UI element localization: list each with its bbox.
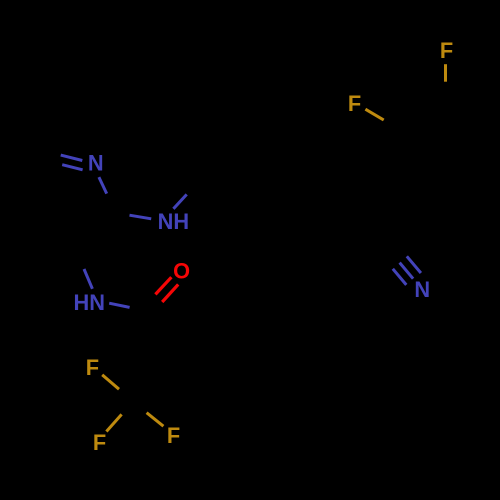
wire: F3 to CF3 carbon half-bond (147, 413, 164, 427)
pyridine ring: C=N double bond, lower line (62, 165, 82, 170)
wire: F1 to CF3 carbon half-bond (102, 375, 119, 389)
svg-text:F: F (167, 423, 180, 448)
svg-text:O: O (173, 259, 190, 284)
svg-text:HN: HN (73, 290, 104, 315)
svg-text:N: N (414, 277, 430, 302)
pyridine ring: C=N double bond, upper line (61, 155, 83, 160)
svg-text:N: N (88, 151, 104, 176)
svg-text:F: F (93, 430, 106, 455)
wire: pyridine N to C2 half-bond (99, 177, 107, 194)
wire: F5 to aryl C half-bond (365, 109, 383, 120)
carbonyl C=O double bond, left line (155, 277, 171, 294)
svg-text:NH: NH (158, 209, 189, 234)
wire: C3 to amide HN half-bond (84, 269, 92, 289)
wire: NH to CH2 half-bond (173, 194, 186, 208)
wire: F2 to CF3 carbon half-bond (106, 414, 121, 431)
wire: C2 to NH half-bond (130, 215, 152, 219)
nitrile triple bond, middle line (400, 263, 414, 279)
svg-text:F: F (86, 355, 99, 380)
wire: F4 to aryl C half-bond (444, 64, 447, 82)
svg-text:F: F (348, 91, 361, 116)
wire: HN to carbonyl C half-bond (109, 303, 129, 307)
svg-text:F: F (440, 38, 453, 63)
nitrile triple bond, lower-left line (393, 269, 407, 285)
carbonyl C=O double bond, right line (162, 284, 178, 302)
nitrile triple bond, upper-right line (407, 256, 421, 273)
